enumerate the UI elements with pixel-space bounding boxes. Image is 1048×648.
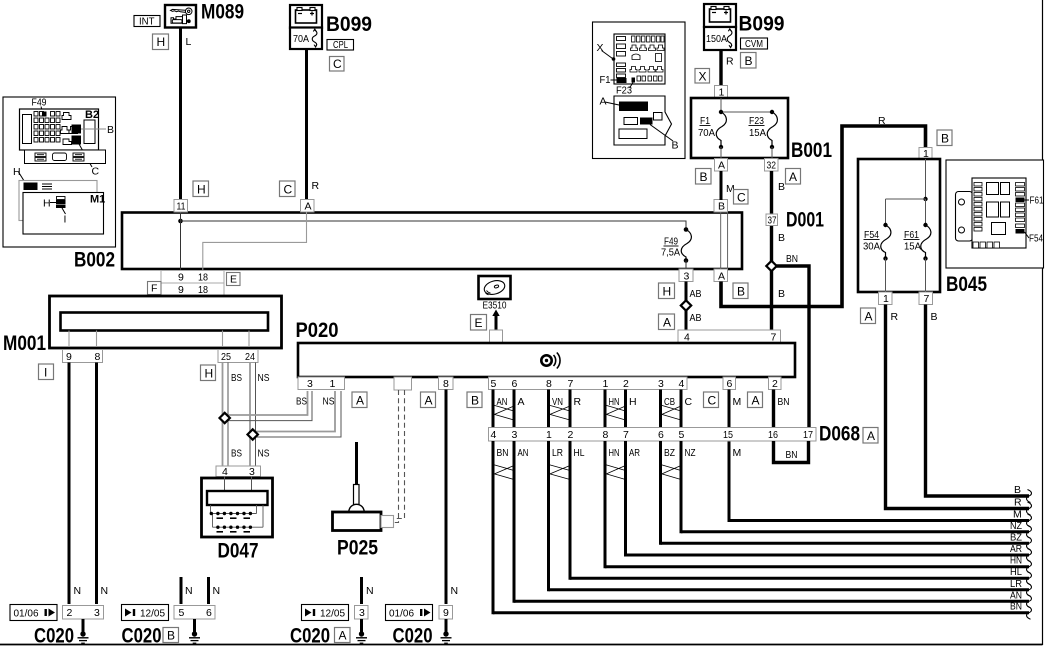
svg-text:7: 7 [924, 293, 930, 305]
svg-text:6: 6 [658, 429, 664, 441]
main fusebox rect [972, 178, 1026, 248]
svg-text:BZ: BZ [664, 447, 675, 459]
svg-text:AB: AB [690, 288, 702, 300]
B045 pin 1 (bottom) [879, 292, 893, 305]
B002 location detail box [3, 97, 116, 248]
striped block [42, 184, 52, 189]
junction diamond BS [220, 413, 230, 423]
svg-text:D047: D047 [218, 540, 259, 563]
B002 pin B (top right) [714, 200, 728, 213]
svg-text:24: 24 [245, 351, 255, 363]
svg-text:AB: AB [690, 312, 702, 324]
svg-text:37: 37 [768, 215, 777, 227]
connector row D068 [489, 428, 817, 442]
svg-text:B099: B099 [326, 13, 372, 36]
svg-text:B: B [737, 285, 745, 299]
fusebox drawing [20, 109, 99, 150]
svg-text:NS: NS [258, 372, 270, 384]
wires B002 pins 9/18 to M001 [181, 268, 203, 313]
svg-text:N: N [74, 585, 82, 597]
connector letter E (right of row) [227, 273, 241, 286]
svg-text:7: 7 [568, 378, 574, 390]
fusebox B045 [858, 159, 940, 292]
svg-text:L: L [186, 36, 192, 48]
ground symbol #3 [356, 619, 367, 643]
svg-text:1: 1 [719, 87, 725, 99]
dashed antenna wires P020 to P025 [394, 390, 405, 523]
CD changer D047 box [202, 478, 273, 537]
speaker wires below D068 [493, 441, 681, 614]
svg-text:HL: HL [1010, 566, 1022, 578]
wire M P020 pin6 through D068 pin15 to right edge [729, 390, 1029, 521]
svg-text:2: 2 [772, 378, 778, 390]
svg-text:LR: LR [1010, 578, 1022, 590]
P020 bottom pin 8 [439, 377, 454, 390]
svg-text:1: 1 [603, 378, 609, 390]
svg-text:3: 3 [359, 607, 365, 619]
connector letter H above B002 [193, 181, 209, 197]
svg-text:6: 6 [512, 378, 518, 390]
battery B099 right [704, 4, 736, 50]
svg-text:F61: F61 [1030, 195, 1044, 207]
svg-text:N: N [366, 585, 374, 597]
B002 internal wire pin A to pin 18 [203, 213, 307, 269]
C020 #2 pins 5 6 [174, 606, 215, 620]
svg-text:A: A [425, 394, 433, 408]
svg-text:N: N [101, 585, 109, 597]
svg-text:LR: LR [552, 447, 563, 459]
svg-text:B: B [941, 132, 949, 146]
arrow from P020 E pin to E3510 [492, 310, 499, 331]
bottom tab row [25, 150, 106, 164]
svg-text:18: 18 [198, 272, 208, 284]
top fuse row [630, 36, 664, 81]
D047 inner rect [207, 491, 268, 505]
P020 bottom pin 2 [769, 377, 782, 390]
svg-text:F23: F23 [616, 85, 632, 97]
svg-text:32: 32 [767, 160, 777, 172]
svg-text:A: A [518, 396, 525, 408]
svg-text:C: C [737, 191, 746, 205]
bottom tabs [973, 242, 1000, 248]
connector letter A (below B045) [861, 308, 876, 324]
svg-text:B: B [718, 201, 725, 213]
connector letter B (after pin 8) [467, 392, 482, 408]
svg-text:8: 8 [546, 378, 552, 390]
connector letter A (after pin 6) [748, 392, 763, 408]
svg-text:HL: HL [574, 447, 585, 459]
left fuse column [974, 183, 982, 232]
B045 pin 7 (bottom) [919, 292, 933, 305]
fusebox B001 [691, 98, 788, 158]
P020 bottom pin 6 [723, 377, 736, 390]
svg-text:I: I [44, 366, 47, 380]
svg-text:R: R [726, 56, 734, 68]
pointer line to C [79, 144, 92, 167]
B2 connector rect [84, 120, 95, 144]
M1 panel [23, 193, 104, 235]
svg-text:BS: BS [231, 448, 242, 460]
svg-text:12/05: 12/05 [140, 608, 165, 620]
svg-text:A: A [718, 271, 725, 283]
relay shapes [61, 113, 78, 145]
svg-text:12/05: 12/05 [320, 608, 345, 620]
M001 inner display rect [61, 313, 269, 331]
svg-text:B: B [167, 629, 175, 643]
shielded pair from M001 pin 25 [223, 363, 229, 466]
svg-text:C: C [333, 57, 342, 71]
svg-text:C020: C020 [290, 625, 330, 648]
svg-text:B099: B099 [739, 13, 785, 36]
svg-text:HN: HN [1010, 555, 1022, 567]
svg-text:NS: NS [323, 396, 335, 408]
connector letter C above B002 [280, 181, 296, 197]
svg-text:X: X [597, 42, 604, 54]
svg-text:AN: AN [1010, 589, 1022, 601]
big relay squares [987, 183, 1010, 235]
BS pair from P020 pin 3 to diamond 1 [226, 391, 312, 421]
svg-text:H: H [197, 183, 206, 197]
right fuse column [1016, 183, 1025, 228]
black square C [72, 136, 82, 145]
svg-text:9: 9 [178, 284, 184, 296]
middle row [624, 118, 638, 125]
svg-text:M1: M1 [90, 194, 105, 206]
P020 bottom pin (unnumbered, antenna) [394, 377, 412, 390]
B002 pin 11 [174, 200, 188, 213]
antenna P025 [333, 442, 394, 531]
svg-text:NS: NS [258, 448, 270, 460]
svg-text:B: B [778, 232, 785, 244]
fuse F1 70A [698, 112, 726, 147]
wire R from B099 right to B001 pin 1 [719, 50, 722, 86]
svg-text:F: F [151, 283, 157, 295]
connector letter B [163, 628, 179, 643]
connector letter A [335, 628, 351, 643]
connector letter A (right of D068) [863, 428, 878, 444]
svg-text:A: A [356, 394, 364, 408]
svg-text:C020: C020 [122, 625, 162, 648]
svg-text:M: M [733, 447, 742, 459]
battery B099 left [290, 5, 322, 49]
svg-text:9: 9 [66, 351, 72, 363]
M001 bottom pins 9 8 [63, 350, 103, 364]
svg-text:M: M [1013, 509, 1022, 521]
junction diamond NS [248, 429, 258, 439]
svg-text:N: N [451, 585, 459, 597]
junction diamond BN [766, 261, 776, 271]
svg-text:H: H [205, 367, 214, 381]
svg-text:P025: P025 [337, 537, 378, 560]
svg-text:NZ: NZ [1010, 520, 1022, 532]
svg-text:A: A [752, 394, 760, 408]
svg-text:3: 3 [249, 466, 255, 478]
connector letter H [153, 34, 169, 50]
A black rect [619, 102, 648, 112]
svg-text:B045: B045 [946, 273, 987, 296]
B045 location detail box [946, 160, 1044, 268]
svg-text:3: 3 [94, 607, 100, 619]
H black block [24, 183, 38, 191]
C020 #4 pin 9 [439, 606, 453, 620]
B002 pin 3 (bottom) [679, 269, 693, 283]
svg-text:17: 17 [803, 429, 813, 441]
buzzer E3510 box [479, 276, 511, 299]
svg-text:A: A [305, 201, 312, 213]
connector letter B [741, 53, 757, 69]
gray connector panel [19, 181, 97, 221]
svg-text:B: B [700, 170, 708, 184]
I label with pointer [62, 208, 66, 214]
wire R path B045 pin1 top to B002 pin A [721, 126, 926, 307]
svg-text:1: 1 [330, 378, 336, 390]
svg-text:A: A [867, 429, 875, 443]
svg-text:150A: 150A [706, 33, 727, 45]
svg-text:8: 8 [603, 429, 609, 441]
B001 pin A (bottom) [715, 159, 728, 172]
fuse F23 15A [749, 112, 778, 147]
F54 black fuse [1016, 229, 1025, 234]
svg-text:BZ: BZ [1010, 532, 1023, 544]
bottom rect [619, 129, 647, 139]
wire break symbols at right edge [1027, 490, 1032, 620]
svg-text:01/06: 01/06 [14, 608, 39, 620]
svg-text:R: R [1014, 497, 1022, 509]
connector letter I [39, 364, 54, 380]
D047 pin stubs [225, 477, 252, 492]
svg-text:15A: 15A [749, 127, 766, 139]
P020 top pin E (unnumbered) [490, 330, 503, 343]
svg-text:B: B [778, 288, 785, 300]
svg-text:6: 6 [206, 607, 212, 619]
svg-text:M: M [733, 396, 742, 408]
svg-text:4: 4 [491, 429, 497, 441]
svg-text:B001: B001 [791, 139, 832, 162]
connector letter X [695, 69, 710, 84]
page frame bottom border [0, 644, 1043, 646]
svg-text:BN: BN [778, 396, 790, 408]
svg-text:F54: F54 [1029, 233, 1043, 245]
svg-text:C: C [284, 183, 293, 197]
svg-text:B2: B2 [85, 109, 99, 121]
C020 #1 pins 2 3 [63, 606, 104, 620]
svg-text:BN: BN [786, 449, 798, 461]
speaker wires P020 to D068 [493, 390, 681, 428]
svg-text:F49: F49 [32, 97, 47, 109]
B002 bottom pin row 9 18 [161, 271, 224, 284]
svg-text:D068: D068 [819, 423, 860, 446]
speaker icon inside P020 [541, 353, 560, 369]
svg-text:4: 4 [222, 466, 228, 478]
svg-text:30A: 30A [863, 241, 880, 253]
stub wire C020 A pin 3 [360, 577, 363, 604]
connector letter H (below pin 25) [201, 365, 216, 381]
upper fusebox drawing [614, 34, 665, 84]
svg-text:X: X [699, 70, 707, 84]
svg-text:BN: BN [1010, 601, 1022, 613]
junction diamond AB [681, 300, 691, 310]
svg-text:HN: HN [609, 447, 620, 459]
svg-text:8: 8 [95, 351, 101, 363]
svg-text:7,5A: 7,5A [661, 247, 680, 259]
wire N from M001 pin 9 to C020 [68, 363, 71, 605]
B001 pin 32 (bottom) [765, 159, 779, 172]
BN U-loop D068 pin16 to pin17 [774, 441, 809, 463]
svg-text:5: 5 [491, 378, 497, 390]
B002 pass-through corridor for pin B [721, 213, 728, 269]
svg-text:3: 3 [307, 378, 313, 390]
svg-text:25: 25 [221, 351, 231, 363]
wire L from M089 to B002 pin 11 [179, 28, 182, 201]
svg-text:BN: BN [497, 447, 509, 459]
svg-text:P020: P020 [296, 319, 339, 342]
X/F1/F23 location detail box [593, 22, 686, 159]
ground symbol #4 [441, 619, 452, 643]
svg-text:D001: D001 [786, 209, 824, 232]
svg-text:F1: F1 [600, 74, 611, 86]
svg-text:H: H [157, 35, 166, 49]
svg-text:B002: B002 [74, 249, 115, 272]
ground symbol #1 [78, 619, 89, 643]
svg-text:N: N [185, 585, 193, 597]
B045 internal wires [883, 159, 927, 292]
F61 pointer [1025, 199, 1030, 201]
lower B001 detail drawing [614, 96, 672, 145]
INT box [134, 16, 160, 28]
connector letter E [471, 315, 487, 331]
striped connector block [56, 197, 66, 209]
connector letter A (after pins 3 1) [352, 392, 367, 408]
svg-text:M089: M089 [201, 1, 244, 24]
wire labels above D068 [497, 396, 790, 408]
P020 top connector 4 7 [678, 330, 781, 344]
svg-text:6: 6 [727, 378, 733, 390]
pointer line to B [81, 128, 106, 130]
svg-text:H: H [43, 198, 51, 210]
svg-text:9: 9 [178, 272, 184, 284]
svg-text:7: 7 [623, 429, 629, 441]
svg-text:E: E [475, 316, 483, 330]
fuse F61 15A [904, 225, 931, 259]
right edge wire labels [1010, 484, 1023, 613]
shielded pair from M001 pin 24 [250, 363, 256, 466]
radio P020 box [298, 343, 795, 377]
B001 internal wires [719, 98, 774, 158]
C020 #3 pin 3 [355, 606, 369, 620]
F1 black fuse [617, 78, 627, 83]
connector letter A (right of B001 pin 32) [786, 169, 801, 185]
svg-text:B: B [107, 124, 114, 136]
M001 top pin row 9 18 [161, 283, 224, 296]
svg-text:I: I [64, 214, 67, 226]
CPL box [327, 39, 354, 51]
svg-text:5: 5 [179, 607, 185, 619]
connector letter H [659, 283, 675, 299]
svg-text:C020: C020 [393, 625, 433, 648]
svg-text:8: 8 [443, 378, 449, 390]
svg-text:2: 2 [623, 378, 629, 390]
wire R from B099 left to B002 pin A [305, 49, 308, 200]
mounting tab [956, 192, 973, 242]
svg-text:2: 2 [67, 607, 73, 619]
connector letter C (after speaker pins) [704, 392, 719, 408]
connector letter A (after antenna pin) [421, 392, 436, 408]
svg-text:BS: BS [231, 372, 242, 384]
svg-text:C: C [92, 166, 100, 178]
F23 black fuse [632, 78, 636, 83]
ground C020 #4 date box 01/06 [386, 605, 433, 621]
svg-text:3: 3 [684, 271, 690, 283]
svg-text:2: 2 [568, 429, 574, 441]
svg-text:A: A [789, 170, 797, 184]
svg-text:5: 5 [679, 429, 685, 441]
svg-text:3: 3 [658, 378, 664, 390]
svg-text:A: A [865, 310, 873, 324]
wire BN P020 pin2 to D068 pin16 [772, 390, 775, 428]
svg-text:C: C [708, 394, 717, 408]
connector letter B (left of B001 pin A) [696, 169, 712, 185]
svg-text:NZ: NZ [685, 447, 696, 459]
connector letter B (right of B045 pin 1) [937, 130, 952, 146]
P020 bottom pins 3 1 [298, 377, 345, 390]
svg-text:11: 11 [177, 201, 186, 213]
fuse F49 inside B002 [661, 227, 691, 268]
svg-text:15: 15 [723, 429, 733, 441]
svg-text:CPL: CPL [333, 39, 348, 51]
svg-text:C020: C020 [34, 625, 74, 648]
B002 pin A (top) [301, 200, 315, 213]
M001 bottom pins 25 24 [218, 350, 258, 364]
svg-text:H: H [13, 166, 21, 178]
ground C020 #3 date box 12/05 [302, 605, 349, 621]
svg-text:B: B [745, 54, 753, 68]
connector letter C [330, 57, 345, 72]
black square B [72, 125, 82, 134]
B002 internal wire from pin 11 to F49 [178, 213, 686, 269]
svg-text:70A: 70A [698, 127, 715, 139]
D047 top pins 4 3 [216, 466, 261, 478]
B045 pin 1 (top) [919, 148, 932, 161]
F49 fuse highlighted [42, 112, 47, 117]
svg-text:A: A [663, 316, 671, 330]
instrument cluster M001 box [50, 296, 282, 348]
connector letter C [734, 190, 749, 205]
svg-text:N: N [213, 585, 221, 597]
svg-text:01/06: 01/06 [389, 608, 414, 620]
wire from P020 pin 8 to C020 pin 9 [445, 390, 448, 605]
stub wires to right edge [493, 532, 1029, 613]
wire AB B002 pin3 to P020 pin 4 [685, 282, 688, 331]
svg-text:15A: 15A [904, 241, 921, 253]
svg-text:1: 1 [883, 293, 889, 305]
wire R from B045 pin 1 to right edge [886, 305, 1030, 509]
svg-text:B: B [1014, 484, 1021, 496]
svg-text:BS: BS [296, 396, 307, 408]
twisted pair symbols above D068 [493, 405, 681, 420]
ground C020 #2 date box 12/05 [122, 605, 169, 621]
svg-text:E3510: E3510 [483, 300, 507, 312]
svg-text:1: 1 [546, 429, 552, 441]
svg-text:R: R [574, 396, 582, 408]
wire BN branch diamond to D068 pin 17 [777, 266, 810, 428]
twisted pair symbols below D068 [493, 465, 681, 480]
M001 internal stubs [69, 331, 249, 348]
svg-text:A: A [339, 629, 347, 643]
svg-text:4: 4 [679, 378, 685, 390]
connector D001 pin 37 [766, 214, 778, 227]
svg-text:B: B [672, 140, 679, 152]
B pointer [650, 125, 673, 142]
